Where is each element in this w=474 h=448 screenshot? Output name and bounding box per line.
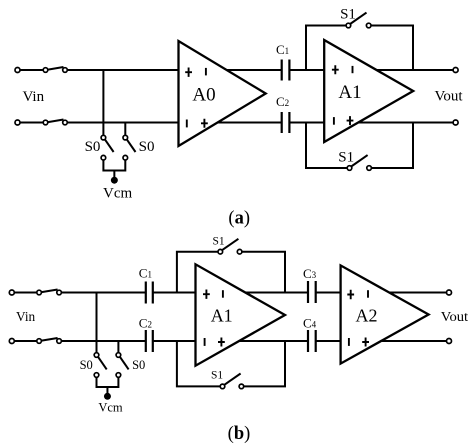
node: Vcm junction dot (b) [104, 393, 111, 400]
svg-text:Vin: Vin [23, 89, 45, 105]
A2 triangle body [341, 265, 429, 363]
S1 (a) top: contact left [346, 23, 351, 28]
input switch (a) top: contact right [63, 68, 68, 73]
wire: (a) top feedback loop, S1 to output rail [371, 26, 413, 71]
svg-text:Vout: Vout [435, 88, 464, 104]
S1 (a) top: lever [350, 13, 366, 24]
A2 plus mark, top input [347, 290, 354, 299]
svg-text:Vcm: Vcm [103, 186, 132, 202]
C3 (b) right plate [315, 281, 317, 303]
svg-text:A1: A1 [338, 82, 361, 103]
A1 (a) plus mark, bottom [347, 116, 354, 125]
wire: (a) A1 bottom output to Vout- terminal [352, 122, 453, 124]
S1 (b) top: contact right [237, 249, 242, 254]
C4 (b) left plate [307, 330, 309, 352]
switch S0 (b) right [116, 353, 129, 378]
capacitor C2 (b) [146, 330, 153, 352]
svg-text:A1: A1 [211, 305, 233, 325]
S0 (a) right: contact right [123, 155, 128, 160]
C2 (a) left plate [281, 112, 283, 133]
svg-text:S0: S0 [132, 358, 145, 372]
wire: (b) C2 to A1 -in [153, 340, 197, 342]
C3 (b) left plate [307, 281, 309, 303]
svg-text:Vout: Vout [441, 309, 469, 324]
S1 (a) top: contact right [366, 23, 371, 28]
input switch (b) bottom: lever [42, 338, 58, 341]
svg-text:S1: S1 [338, 149, 354, 165]
A0 minus mark, bottom input [186, 120, 188, 128]
S0 (b) left: contact right [94, 373, 99, 378]
svg-text:C1: C1 [276, 42, 289, 57]
input switch (a) bottom: contact left [43, 120, 48, 125]
A1 (b) minus mark, bottom input [204, 338, 206, 346]
switch: (a) top input series switch [43, 67, 67, 72]
svg-text:S1: S1 [213, 235, 225, 247]
switch S0 (a) left [101, 135, 114, 160]
svg-text:C4: C4 [303, 316, 317, 331]
C2 (b) left plate [145, 330, 147, 352]
input switch (b) bottom: contact left [37, 339, 42, 344]
svg-text:Vcm: Vcm [98, 401, 123, 415]
switch S0 (b) left [94, 353, 107, 378]
svg-text:(a): (a) [228, 209, 250, 229]
C4 (b) right plate [315, 330, 317, 352]
input switch (b) top: contact left [37, 290, 42, 295]
svg-text:S0: S0 [139, 139, 155, 155]
S1 (b) top: contact left [218, 249, 223, 254]
A0 plus mark, top input [185, 68, 192, 77]
op-amp A0 [179, 41, 266, 146]
wire: (b) bottom feedback loop, S1 to A1 output [244, 341, 285, 386]
svg-text:S1: S1 [340, 7, 356, 23]
wire: (b) C1 to A1 +in [153, 292, 197, 294]
A1 (b) plus mark, bottom [218, 338, 225, 347]
wire: (b) bottom feedback loop, left side down and across to S1 [177, 341, 220, 386]
wire: (a) S0 common connector to Vcm [103, 160, 125, 171]
wire: (b) Vcm stub [106, 387, 108, 393]
switch: (b) top input series switch [37, 290, 62, 295]
S1 (b) bottom: contact right [239, 384, 244, 389]
capacitor C1 (b) [146, 282, 153, 304]
S0 (b) left: contact left [94, 353, 99, 358]
S1 (b) bottom: lever [224, 374, 240, 385]
wire: (b) bottom input rail, switch to C2 [61, 340, 146, 342]
terminal: (b) Vout+ [447, 290, 452, 295]
input switch (a) top: lever [48, 67, 64, 70]
C2 (a) right plate [288, 112, 290, 133]
wire: (a) A1 top output to Vout+ terminal [368, 69, 453, 71]
S1 (b) bottom: contact left [220, 384, 225, 389]
wire: (a) A0 top output to C1 [220, 69, 282, 71]
terminal: (a) Vin+ input [15, 68, 20, 73]
S0 (a) left: lever [105, 139, 114, 152]
terminal: (a) Vin- input [15, 120, 20, 125]
op-amp A2 (b) [341, 265, 429, 363]
switch S1 (a) bottom [347, 155, 371, 170]
S1 (b) top: lever [222, 239, 238, 250]
wire: (a) tap from bottom rail down to right S0 [124, 123, 126, 136]
svg-text:S1: S1 [211, 369, 223, 381]
A0 minus mark, top [205, 68, 207, 76]
switch S1 (a) top [346, 13, 371, 28]
svg-text:A2: A2 [356, 305, 378, 325]
S0 (b) right: contact left [116, 353, 121, 358]
input switch (b) top: contact right [57, 290, 62, 295]
S0 (a) right: contact left [123, 135, 128, 140]
wire: (a) A0 bottom output to C2 [212, 122, 282, 124]
C1 (b) right plate [152, 282, 154, 304]
wire: (a) C2 to A1 -in [289, 122, 326, 124]
S0 (b) right: contact right [116, 373, 121, 378]
A1 (b) minus mark, top [222, 290, 224, 298]
A2 plus mark, bottom [362, 338, 369, 347]
op-amp A1 (b) [196, 264, 286, 365]
A2 minus mark, top [367, 290, 369, 298]
svg-text:S0: S0 [80, 358, 93, 372]
C1 (a) right plate [288, 60, 290, 81]
wire: (a) bottom feedback loop, S1 to output rail [371, 123, 413, 169]
wire: (b) bottom input rail, terminal to switch [14, 340, 37, 342]
switch: (a) bottom input series switch [43, 120, 67, 125]
A0 triangle body [179, 41, 266, 146]
capacitor C3 (b) [308, 281, 316, 303]
terminal: (a) Vout+ [453, 68, 458, 73]
wire: (b) top feedback loop, left side up and across to S1 [177, 252, 218, 293]
capacitor C2 (a) [282, 112, 290, 133]
wire: (b) A1 bottom output to C4 [232, 340, 308, 342]
input switch (a) top: contact left [43, 68, 48, 73]
svg-text:C2: C2 [139, 315, 152, 330]
wire: (b) tap from bottom rail down to right S0 [117, 341, 119, 353]
wire: (b) top input rail, terminal to switch [14, 292, 37, 294]
terminal: (b) Vin- input [9, 339, 14, 344]
wire: (b) C3 to A2 +in [316, 292, 342, 294]
input switch (b) bottom: contact right [57, 339, 62, 344]
A1 (b) triangle body [196, 264, 286, 365]
C1 (a) left plate [281, 60, 283, 81]
op-amp A1 (a) [324, 40, 413, 142]
A0 plus mark, bottom [201, 119, 208, 128]
svg-text:A0: A0 [192, 84, 215, 105]
C1 (b) left plate [145, 282, 147, 304]
terminal: (b) Vin+ input [9, 290, 14, 295]
A1 (a) minus mark, bottom input [333, 117, 335, 125]
wire: (b) A1 top output to C3 [240, 292, 308, 294]
svg-text:C1: C1 [139, 266, 152, 281]
terminal: (a) Vout- [453, 120, 458, 125]
svg-text:(b): (b) [228, 424, 251, 444]
wire: (b) A2 top output to Vout+ terminal [386, 292, 447, 294]
wire: (b) top feedback loop, S1 to A1 output [242, 252, 285, 293]
S0 (b) left: lever [98, 357, 107, 370]
wire: (a) top feedback loop, left side up and across to S1 [306, 26, 346, 71]
C2 (b) right plate [152, 330, 154, 352]
wire: (b) C4 to A2 -in [316, 340, 342, 342]
wire: (a) top input rail, switch to A0 +in [67, 69, 180, 71]
capacitor C4 (b) [308, 330, 316, 352]
S0 (a) left: contact right [101, 155, 106, 160]
S1 (a) bottom: contact left [347, 166, 352, 171]
A1 (a) plus mark, top input [332, 65, 339, 74]
A1 (a) minus mark, top [352, 66, 354, 73]
switch S0 (a) right [123, 135, 136, 160]
input switch (a) bottom: contact right [63, 120, 68, 125]
svg-text:C2: C2 [276, 94, 289, 109]
svg-text:C3: C3 [303, 266, 317, 281]
wire: (a) C1 to A1 +in [289, 69, 326, 71]
node: Vcm junction dot (a) [111, 177, 118, 184]
wire: (a) Vcm stub [113, 171, 115, 178]
S1 (a) bottom: lever [351, 155, 367, 166]
S0 (a) left: contact left [101, 135, 106, 140]
terminal: (b) Vout- [447, 339, 452, 344]
A1 (b) plus mark, top input [203, 290, 210, 299]
A2 minus mark, bottom input [348, 338, 350, 346]
wire: (b) tap from top rail down to left S0 [96, 293, 98, 353]
S0 (b) right: lever [120, 357, 129, 370]
svg-text:Vin: Vin [16, 309, 35, 324]
A1 (a) triangle body [324, 40, 413, 142]
wire: (a) bottom input rail, switch to A0 -in [67, 122, 180, 124]
S1 (a) bottom: contact right [367, 166, 372, 171]
wire: (a) bottom input rail, terminal to switch [20, 122, 44, 124]
switch: (b) bottom input series switch [37, 338, 62, 343]
switch S1 (b) bottom [220, 374, 244, 389]
wire: (a) bottom feedback loop, left side down and across to S1 [306, 123, 347, 169]
switch S1 (b) top [218, 239, 242, 254]
input switch (a) bottom: lever [48, 120, 64, 123]
wire: (b) top input rail, switch to C1 [61, 292, 146, 294]
wire: (b) A2 bottom output to Vout- terminal [376, 340, 447, 342]
wire: (a) top input rail, terminal to switch S-in [20, 69, 44, 71]
S0 (a) right: lever [127, 139, 136, 152]
capacitor C1 (a) [282, 60, 290, 81]
wire: (a) tap from top rail down to left S0 [102, 70, 104, 135]
wire: (b) S0 common connector to Vcm [97, 377, 119, 387]
input switch (b) top: lever [42, 290, 58, 293]
svg-text:S0: S0 [85, 139, 101, 155]
